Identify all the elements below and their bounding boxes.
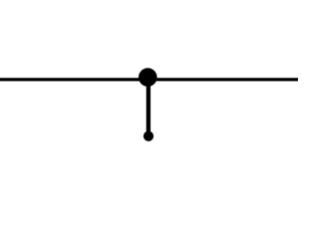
junction dot bbox=[139, 68, 158, 87]
terminal dot bbox=[143, 131, 153, 141]
wire: vertical stub bbox=[146, 77, 150, 136]
wire: horizontal bus line bbox=[0, 78, 300, 81]
